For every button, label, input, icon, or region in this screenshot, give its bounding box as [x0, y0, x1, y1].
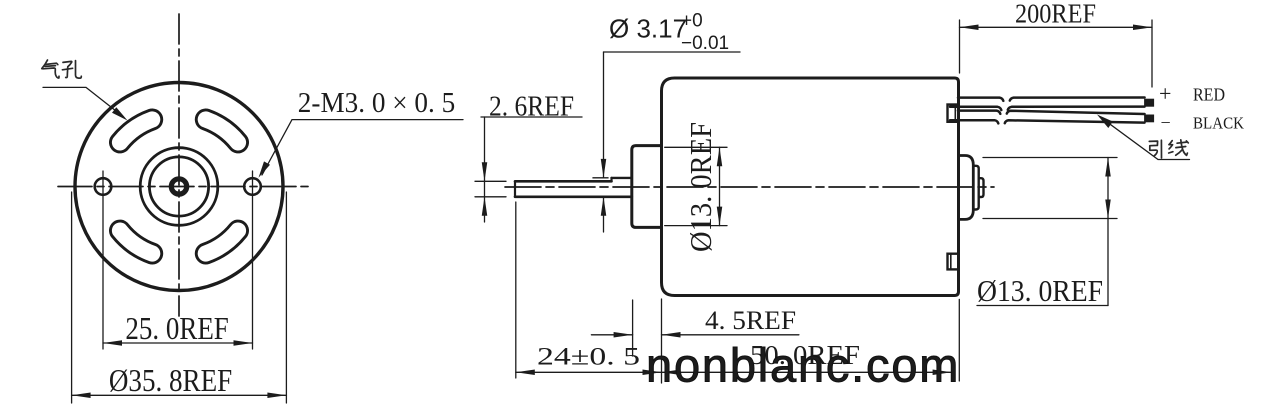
- svg-text:Ø13. 0REF: Ø13. 0REF: [683, 122, 718, 252]
- mounting hole left: [95, 178, 112, 195]
- motor body: [662, 78, 959, 296]
- svg-text:Ø 3.17: Ø 3.17: [609, 14, 687, 44]
- dimension 24+-0.5 and 50.0REF shared line: [515, 202, 517, 378]
- terminal tab bottom: [948, 254, 959, 270]
- leader 引线: [1100, 117, 1190, 160]
- rear boss step: [973, 166, 978, 210]
- svg-text:25. 0REF: 25. 0REF: [125, 310, 228, 346]
- svg-text:24±0. 5: 24±0. 5: [537, 342, 640, 371]
- rear shaft tip: [979, 178, 984, 197]
- motor end-cap outer circle: [75, 83, 283, 291]
- leader 气孔: [43, 87, 123, 116]
- dia13.0REF shelf: [977, 305, 1108, 307]
- svg-text:−0.01: −0.01: [681, 33, 729, 54]
- dimension 200REF extension lines: [959, 20, 961, 73]
- dimension dia35.8REF extension lines: [71, 192, 73, 403]
- wire 2 tip: [1145, 115, 1154, 122]
- svg-text:nonblanc.com: nonblanc.com: [646, 339, 960, 392]
- dimension dia3.17 vertical line and arrows: [603, 52, 605, 178]
- dimension dia13.0REF (bushing) line: [719, 147, 721, 225]
- vent slot top-left: [120, 120, 152, 143]
- vent slot bottom-right: [206, 231, 238, 254]
- front view: vertical centerline: [178, 14, 180, 316]
- 50.0REF right extension: [958, 299, 960, 381]
- vent slot top-right: [206, 120, 238, 143]
- dimension 2.6REF shelf: [481, 116, 582, 118]
- side view centerline: [505, 186, 994, 188]
- front view: horizontal centerline: [58, 186, 308, 188]
- dimension dia13.0REF (rear) line with arrows: [1107, 158, 1109, 306]
- chinese label 气孔 (air vent) drawn as strokes: [42, 60, 82, 78]
- dimension 2.6REF vertical line and arrows: [484, 117, 486, 222]
- wire 1 tip: [1145, 99, 1154, 106]
- svg-text:−: −: [1161, 113, 1171, 133]
- shaft cross-section (filled ring): [171, 179, 186, 194]
- dimension 4.5REF: [632, 300, 634, 356]
- svg-text:+0: +0: [681, 10, 703, 31]
- mounting hole left center mark / extension line: [102, 171, 104, 349]
- boss inner circle: [149, 157, 208, 216]
- dimension dia3.17 shelf: [604, 51, 741, 53]
- wires terminal tab top: [948, 105, 959, 122]
- svg-text:2-M3. 0 × 0. 5: 2-M3. 0 × 0. 5: [298, 87, 455, 119]
- mounting hole right center mark / extension line: [252, 171, 254, 349]
- dimension dia13.0REF (bushing) extension lines: [665, 146, 727, 148]
- dimension dia35.8REF line: [72, 394, 287, 396]
- svg-text:200REF: 200REF: [1015, 0, 1096, 28]
- svg-text:4. 5REF: 4. 5REF: [705, 306, 796, 335]
- shaft: [515, 180, 612, 183]
- rear bearing boss: [959, 156, 974, 220]
- svg-text:RED: RED: [1193, 85, 1225, 105]
- svg-text:Ø35. 8REF: Ø35. 8REF: [109, 362, 232, 398]
- dimension 25.0REF line: [103, 342, 253, 344]
- boss outer circle: [140, 148, 218, 226]
- mounting hole right: [244, 178, 261, 195]
- dimension 200REF line: [960, 26, 1153, 28]
- leader 2-M3.0x0.5: [262, 120, 463, 175]
- wire 2 (bottom): [958, 111, 1000, 114]
- front bushing: [632, 146, 662, 228]
- svg-text:Ø13. 0REF: Ø13. 0REF: [977, 273, 1103, 308]
- svg-text:2. 6REF: 2. 6REF: [489, 90, 574, 122]
- chinese label 引线 (lead wire) drawn as strokes: [1149, 140, 1188, 158]
- dimension dia13.0REF (rear) extension lines: [983, 157, 1117, 159]
- vent slot bottom-left: [120, 231, 152, 254]
- svg-text:BLACK: BLACK: [1193, 114, 1245, 133]
- svg-text:+: +: [1159, 81, 1171, 106]
- wire 1 (top): [958, 98, 1003, 101]
